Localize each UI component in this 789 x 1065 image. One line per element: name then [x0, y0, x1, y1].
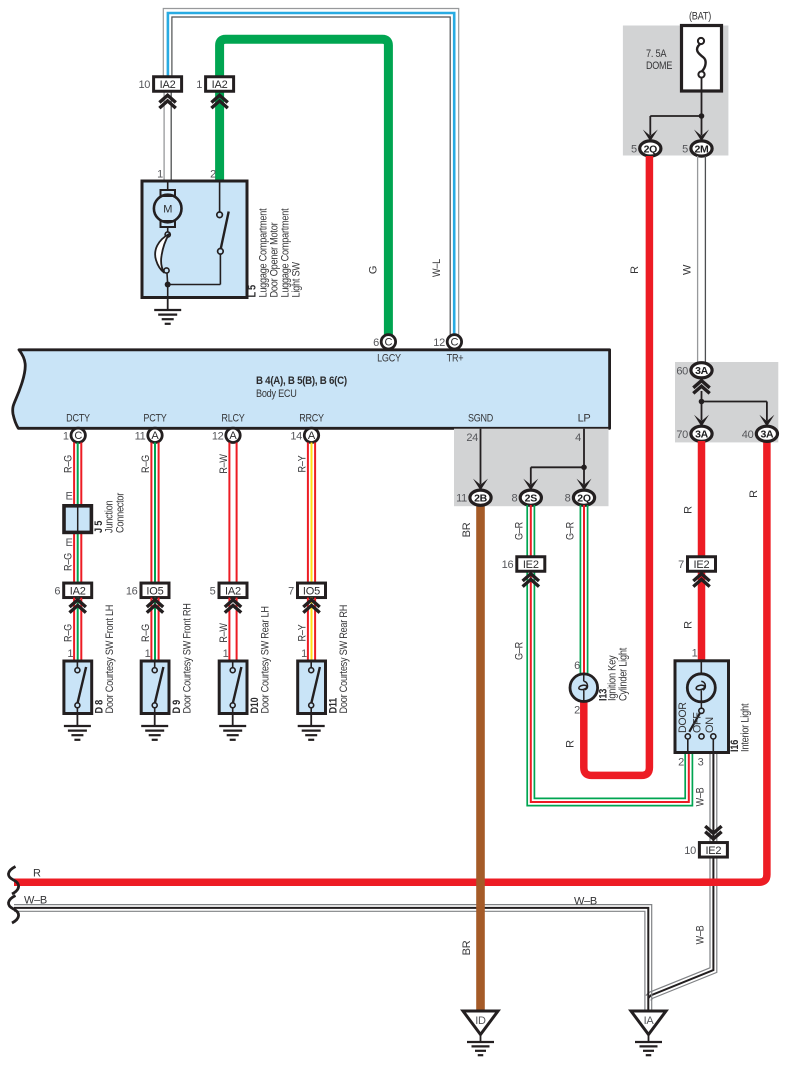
ECU pin TR+ connector C pin 12 — [433, 335, 461, 349]
svg-text:IO5: IO5 — [303, 585, 320, 597]
connector 3A pin 60 — [676, 363, 712, 378]
svg-text:70: 70 — [676, 429, 688, 441]
ground IA — [631, 1011, 666, 1055]
svg-text:3A: 3A — [695, 429, 709, 441]
connector 2S pin 8 — [511, 490, 541, 505]
svg-text:RLCY: RLCY — [221, 413, 245, 425]
label I13 name — [607, 648, 630, 701]
connector IA2 pin 5 — [210, 583, 247, 598]
svg-text:1: 1 — [67, 648, 73, 660]
svg-text:W–B: W–B — [24, 895, 47, 907]
svg-text:W: W — [681, 264, 693, 275]
wire W-B from page edge across bottom turning down to ground IA — [14, 905, 652, 1011]
svg-text:IA2: IA2 — [160, 79, 176, 91]
door courtesy switch D10 — [219, 648, 247, 714]
svg-text:R–G: R–G — [63, 553, 75, 571]
door courtesy switch D11 — [298, 648, 326, 714]
chevron under IE2 No.7 — [693, 574, 709, 587]
svg-text:E: E — [65, 537, 72, 549]
wire R–W from IA2 to D10 — [229, 598, 236, 661]
arrow into 2Q pin 8 — [577, 467, 592, 490]
wire G from IA2 No.1 up across to Body ECU LGCY — [220, 39, 389, 334]
svg-text:Door Courtesy SW Rear LH: Door Courtesy SW Rear LH — [259, 606, 271, 713]
wire W from 2M pin 5 down to 3A pin 60 — [698, 156, 706, 363]
svg-text:5: 5 — [631, 144, 637, 156]
door courtesy switch D 8 — [64, 648, 92, 714]
svg-text:IO5: IO5 — [146, 585, 163, 597]
wire R–G from ECU to IO5 No.16 — [151, 443, 158, 584]
arrow into 3A pin 40 — [759, 402, 774, 427]
svg-text:Interior Light: Interior Light — [740, 704, 752, 752]
svg-text:40: 40 — [742, 429, 754, 441]
svg-text:W–L: W–L — [431, 259, 443, 277]
svg-text:OFF: OFF — [692, 712, 704, 733]
svg-text:16: 16 — [502, 559, 514, 571]
svg-text:BR: BR — [461, 940, 473, 955]
label J5 name — [104, 492, 127, 533]
svg-text:10: 10 — [138, 79, 150, 91]
connector IE2 pin 16 — [502, 557, 545, 572]
svg-text:1: 1 — [692, 648, 698, 660]
svg-text:G–R: G–R — [514, 642, 526, 660]
svg-text:G–R: G–R — [514, 522, 526, 540]
svg-text:5: 5 — [682, 144, 688, 156]
ground below D10 — [219, 714, 246, 740]
door courtesy switch D 9 — [141, 648, 169, 714]
svg-text:R: R — [629, 266, 641, 274]
svg-text:R: R — [748, 490, 760, 498]
chevron under IA2 No.6 — [70, 600, 86, 613]
connector 3A pin 40 — [742, 426, 778, 441]
chevron under IE2 No.16 — [523, 574, 539, 587]
chevron under IO5 No.7 — [303, 600, 319, 613]
svg-text:8: 8 — [565, 493, 571, 505]
ground below D 9 — [141, 714, 168, 740]
connector 2M pin 5 — [682, 141, 712, 156]
svg-text:6: 6 — [574, 660, 580, 672]
svg-text:2Q: 2Q — [577, 493, 591, 505]
wire W-B from I16 pin 3 through IE2 No.10 to ground splice — [646, 753, 717, 1001]
ECU pin RRCY connector A pin 14 — [290, 428, 318, 442]
svg-text:16: 16 — [126, 585, 138, 597]
connector IE2 pin 10 — [684, 843, 727, 858]
svg-text:1: 1 — [223, 648, 229, 660]
wire R–G from IO5 to D 9 — [151, 598, 158, 661]
connector IA2 pin 6 — [54, 583, 91, 598]
svg-text:C: C — [451, 337, 459, 349]
ground ID — [463, 1011, 498, 1055]
svg-text:ID: ID — [475, 1015, 486, 1027]
svg-text:Door Courtesy SW Front RH: Door Courtesy SW Front RH — [181, 603, 193, 713]
svg-text:2B: 2B — [474, 493, 488, 505]
svg-text:G–R: G–R — [565, 522, 577, 540]
wire W-L from IA2 No.10 up across top to Body ECU TR+ — [163, 9, 458, 335]
svg-text:2: 2 — [574, 705, 580, 717]
chevron under 3A No.60 — [693, 381, 709, 394]
svg-text:W–B: W–B — [694, 788, 706, 807]
page continuation squiggle W-B — [8, 896, 18, 924]
wire R–G from IA2 to D 8 — [74, 598, 81, 661]
chevron above IE2 No.10 — [705, 826, 721, 839]
svg-text:2: 2 — [210, 169, 216, 181]
arrow into 3A pin 70 — [694, 402, 709, 427]
svg-text:6: 6 — [373, 337, 379, 349]
svg-text:R–G: R–G — [140, 624, 152, 642]
connector 2Q pin 8 — [565, 490, 595, 505]
svg-text:A: A — [151, 430, 159, 442]
ignition key cylinder light I13 — [570, 660, 598, 717]
wire G from IA2 No.1 down to L5 pin 2 — [215, 91, 224, 181]
svg-text:R: R — [682, 621, 694, 629]
wire R–Y from IO5 to D11 — [308, 598, 315, 661]
svg-text:R–W: R–W — [218, 454, 230, 474]
svg-text:Light SW: Light SW — [291, 261, 303, 297]
svg-text:ON: ON — [704, 717, 716, 733]
connector IE2 pin 7 — [678, 557, 715, 572]
svg-text:24: 24 — [466, 432, 478, 444]
fuse 7.5A DOME — [682, 26, 722, 92]
svg-text:1: 1 — [63, 430, 69, 442]
svg-text:2M: 2M — [695, 143, 710, 155]
svg-text:A: A — [308, 430, 316, 442]
svg-text:A: A — [229, 430, 237, 442]
svg-text:SGND: SGND — [468, 413, 493, 425]
connector IA2 pin 10 — [138, 77, 181, 92]
svg-text:R–G: R–G — [140, 455, 152, 473]
svg-text:DCTY: DCTY — [66, 413, 90, 425]
wire R from 2Q pin 5 down to I13 pin 2 — [584, 156, 650, 775]
svg-text:3A: 3A — [695, 365, 709, 377]
page continuation squiggle R — [8, 867, 18, 895]
chevron under IA2 No.1 — [211, 95, 227, 108]
svg-text:LGCY: LGCY — [377, 353, 401, 365]
connector IO5 pin 7 — [288, 583, 325, 598]
svg-text:G: G — [367, 266, 379, 274]
svg-text:7. 5A: 7. 5A — [646, 48, 667, 60]
svg-text:C: C — [74, 430, 82, 442]
svg-text:Connector: Connector — [115, 492, 127, 533]
gray junction box 3A — [675, 362, 778, 442]
svg-text:R: R — [565, 740, 577, 748]
chevron under IO5 No.16 — [147, 600, 163, 613]
label L5 name — [258, 208, 303, 297]
wire R–Y from ECU to IO5 No.7 — [308, 443, 315, 584]
arrow into 2B pin 11 — [473, 479, 488, 491]
svg-text:7: 7 — [678, 559, 684, 571]
ECU pin DCTY connector C pin 1 — [63, 428, 86, 442]
svg-text:Door Courtesy SW Rear RH: Door Courtesy SW Rear RH — [338, 605, 350, 714]
svg-text:1: 1 — [301, 648, 307, 660]
svg-text:IE2: IE2 — [523, 559, 539, 571]
junction harness gray box below ECU — [454, 429, 609, 507]
chevron under IA2 No.10 — [159, 95, 175, 108]
svg-text:7: 7 — [288, 585, 294, 597]
svg-text:M: M — [163, 204, 172, 216]
ground below L5 — [154, 298, 181, 324]
ECU pin RLCY connector A pin 12 — [212, 428, 240, 442]
svg-text:3: 3 — [698, 757, 704, 769]
junction connector J5 — [64, 491, 91, 550]
svg-text:11: 11 — [456, 493, 467, 505]
svg-text:W–B: W–B — [574, 896, 597, 908]
svg-text:12: 12 — [433, 337, 445, 349]
svg-text:IE2: IE2 — [705, 845, 721, 857]
svg-text:11: 11 — [135, 430, 146, 442]
svg-text:IA2: IA2 — [225, 585, 241, 597]
wire R from connector 3A pin 40 down right side and across page bottom — [14, 441, 767, 882]
svg-text:Cylinder Light: Cylinder Light — [618, 648, 630, 701]
svg-text:3A: 3A — [760, 429, 774, 441]
svg-text:Body ECU: Body ECU — [256, 388, 297, 400]
arrow into 2S pin 8 — [523, 467, 538, 490]
Body ECU box B4(A) B5(B) B6(C) — [13, 350, 610, 429]
chevron under IA2 No.5 — [225, 600, 241, 613]
svg-text:1: 1 — [196, 79, 202, 91]
svg-text:IE2: IE2 — [694, 559, 710, 571]
connector 2B pin 11 — [456, 490, 491, 505]
svg-text:12: 12 — [212, 430, 224, 442]
arrow into 2Q pin 5 — [643, 116, 658, 141]
svg-text:DOOR: DOOR — [677, 702, 689, 733]
ground below D 8 — [64, 714, 91, 740]
svg-text:IA2: IA2 — [70, 585, 86, 597]
svg-text:14: 14 — [290, 430, 302, 442]
svg-text:10: 10 — [684, 845, 696, 857]
luggage compartment door opener motor / light switch L5 — [142, 169, 247, 298]
svg-text:R–G: R–G — [63, 624, 75, 642]
connector 3A pin 70 — [676, 426, 712, 441]
svg-text:R: R — [33, 868, 41, 880]
wire W from IA2 No.10 down to L5 pin 1 — [164, 91, 171, 181]
svg-text:R–G: R–G — [63, 455, 75, 473]
svg-text:IA2: IA2 — [212, 79, 228, 91]
arrow into 2M pin 5 — [694, 116, 709, 141]
svg-text:DOME: DOME — [646, 60, 672, 72]
connector IA2 pin 1 — [196, 77, 233, 92]
svg-text:60: 60 — [676, 365, 688, 377]
svg-text:R–Y: R–Y — [296, 624, 308, 642]
svg-text:LP: LP — [578, 413, 591, 425]
svg-text:W–B: W–B — [694, 926, 706, 945]
ECU pin LGCY connector C pin 6 — [373, 335, 396, 349]
svg-text:(BAT): (BAT) — [689, 11, 711, 23]
svg-text:TR+: TR+ — [447, 353, 464, 365]
ECU pin PCTY connector A pin 11 — [135, 428, 163, 442]
svg-text:Door Courtesy SW Front LH: Door Courtesy SW Front LH — [104, 605, 116, 714]
wire R from 3A pin 70 through IE2 No.7 to I16 pin 1 — [698, 441, 706, 661]
svg-text:2Q: 2Q — [644, 143, 658, 155]
svg-text:R: R — [682, 506, 694, 514]
svg-text:2S: 2S — [525, 493, 538, 505]
svg-text:8: 8 — [511, 493, 517, 505]
svg-text:RRCY: RRCY — [299, 413, 324, 425]
svg-text:6: 6 — [54, 585, 60, 597]
svg-text:1: 1 — [157, 169, 163, 181]
svg-text:C: C — [385, 337, 393, 349]
wire G-R from 2Q pin 8 to I13 pin 6 — [580, 505, 587, 674]
wire R–W from ECU to IA2 No.5 — [229, 443, 236, 584]
wire R–G from ECU to IA2 No.6 — [74, 443, 81, 584]
svg-text:5: 5 — [210, 585, 216, 597]
svg-text:B 4(A), B 5(B), B 6(C): B 4(A), B 5(B), B 6(C) — [256, 375, 347, 387]
svg-text:PCTY: PCTY — [143, 413, 167, 425]
wire BR from connector 2B pin 11 down to ground ID — [476, 505, 485, 1011]
svg-text:1: 1 — [145, 648, 151, 660]
connector IO5 pin 16 — [126, 583, 169, 598]
svg-text:R–W: R–W — [218, 623, 230, 643]
svg-text:BR: BR — [461, 522, 473, 537]
svg-text:IA: IA — [644, 1015, 655, 1027]
ground below D11 — [298, 714, 325, 740]
svg-text:4: 4 — [575, 432, 581, 444]
connector 2Q pin 5 — [631, 141, 661, 156]
relay block gray box with DOME fuse — [623, 11, 729, 156]
svg-text:R–Y: R–Y — [296, 455, 308, 473]
svg-text:2: 2 — [678, 757, 684, 769]
svg-text:E: E — [65, 491, 72, 503]
interior light I16 — [675, 648, 729, 769]
wire G-R from 2S pin 8 through IE2 No.16 to I16 pin 2 — [527, 505, 692, 806]
fuse output branch lines — [650, 78, 704, 119]
